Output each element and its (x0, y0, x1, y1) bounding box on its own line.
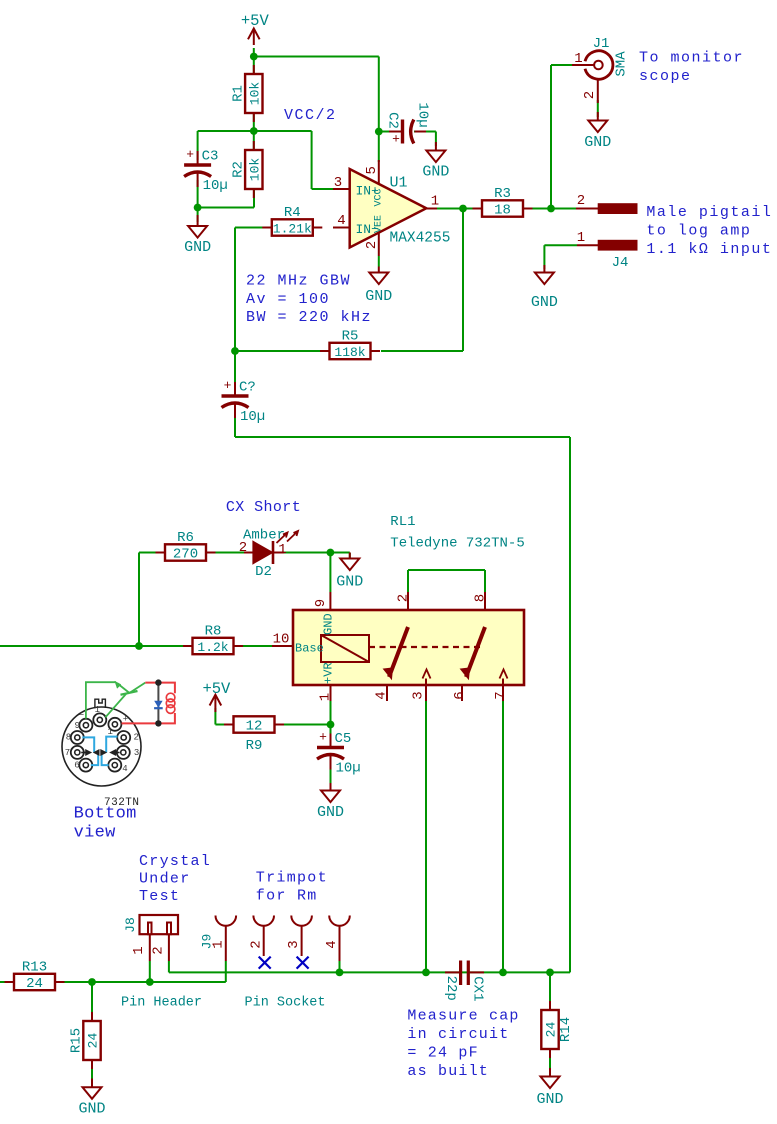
svg-text:3: 3 (411, 691, 427, 699)
svg-text:Amber: Amber (243, 528, 285, 544)
resistor R8 1.2k (183, 624, 243, 656)
svg-text:2: 2 (364, 241, 380, 249)
wire relay pin1 to C5 node (330, 701, 332, 740)
op-amp pin 2 VEE (364, 215, 385, 267)
relay pin 7 (493, 685, 509, 701)
svg-text:+: + (186, 147, 194, 162)
svg-text:J1: J1 (593, 36, 610, 52)
junction J9 pin4 (336, 969, 344, 977)
svg-text:+: + (319, 730, 327, 745)
connector J1 value SMA (614, 51, 630, 77)
svg-text:+5V: +5V (241, 12, 270, 30)
note Trimpot for Rm (256, 870, 328, 905)
svg-text:GND: GND (365, 288, 392, 305)
svg-text:R8: R8 (205, 624, 222, 640)
svg-text:Crystal: Crystal (139, 853, 211, 870)
wire op-amp output to R3 (426, 208, 482, 210)
wire relay pin7 down to bottom net (502, 701, 504, 972)
connector J1 SMA body (585, 51, 613, 79)
svg-text:R15: R15 (69, 1028, 85, 1053)
resistor R4 1.21k (262, 205, 322, 237)
wire bottom net B (169, 961, 570, 972)
op-amp pin 5 VCC (364, 160, 385, 207)
svg-text:GND: GND (531, 294, 558, 311)
svg-text:GND: GND (184, 239, 211, 256)
male pigtail bar J4 pin 1 (577, 230, 638, 251)
label VCC/2 (284, 107, 337, 124)
wire R8 right to relay pin 10 (233, 645, 272, 647)
connector J8 reference (123, 917, 138, 933)
svg-text:4: 4 (374, 691, 390, 699)
svg-text:J8: J8 (123, 917, 138, 933)
svg-text:Trimpot: Trimpot (256, 870, 328, 887)
svg-text:10: 10 (273, 632, 290, 648)
svg-text:Av = 100: Av = 100 (246, 291, 330, 308)
svg-text:as built: as built (407, 1063, 489, 1080)
svg-text:Male pigtail: Male pigtail (646, 204, 772, 221)
note Male pigtail to log amp (646, 204, 772, 258)
relay mechanical link dashed (369, 646, 481, 648)
relay contact pin 7 (500, 670, 508, 686)
wire +5V to R9 (215, 708, 236, 725)
svg-text:10µ: 10µ (336, 761, 361, 777)
svg-text:Bottom: Bottom (74, 805, 137, 824)
note Crystal Under Test (139, 853, 211, 905)
svg-text:22p: 22p (443, 976, 459, 1001)
wire C3 bottom node (198, 180, 254, 222)
svg-text:4: 4 (337, 213, 345, 229)
resistor R2 10k (230, 141, 262, 198)
732TN pin circle plus (108, 718, 121, 731)
wire J8 pin1 to net A (149, 961, 151, 982)
732TN diode arrows black (81, 750, 119, 755)
wire CX short node to R6 (139, 553, 164, 647)
ground under C3 (184, 215, 211, 256)
732TN pin circle 4 (108, 759, 121, 772)
svg-text:22 MHz GBW: 22 MHz GBW (246, 273, 351, 290)
svg-text:GND: GND (322, 613, 336, 635)
wire bottom net A (0, 981, 226, 983)
svg-text:1: 1 (431, 194, 439, 210)
relay pin 9 GND (313, 592, 336, 635)
connector J9 socket pin 2 (248, 916, 274, 957)
junction R14 tap (546, 969, 554, 977)
svg-text:2: 2 (577, 193, 585, 209)
wire pin9 node down to relay pin 9 (329, 553, 331, 593)
wire R1 bottom to R2 top through VCC/2 node (253, 113, 255, 150)
svg-text:CX1: CX1 (470, 976, 486, 1001)
LED D2 Amber (239, 528, 298, 581)
svg-text:C3: C3 (202, 149, 219, 165)
svg-text:for Rm: for Rm (256, 888, 318, 905)
svg-text:9: 9 (313, 599, 329, 607)
note Measure cap in circuit (407, 1008, 519, 1081)
op-amp reference U1 (390, 175, 408, 192)
svg-text:1: 1 (574, 51, 582, 67)
svg-text:R5: R5 (342, 329, 359, 345)
capacitor C3 10u (184, 147, 228, 194)
junction +5V/R1 (250, 53, 258, 61)
732TN transistor sketch green (86, 681, 145, 718)
svg-text:R3: R3 (494, 186, 511, 202)
ground under op-amp pin 2 (365, 267, 392, 306)
svg-text:2: 2 (396, 594, 412, 602)
svg-text:3: 3 (286, 940, 302, 948)
svg-text:to log amp: to log amp (646, 223, 751, 240)
note To monitor scope (639, 50, 744, 86)
wire C? bottom to long vertical net (235, 416, 570, 972)
732TN pin circle 1 top (93, 713, 106, 726)
wire +5V rail to R1 and pin5 column (254, 48, 379, 162)
732TN diode sketch (154, 679, 163, 726)
wire R9 right to C5 node (273, 724, 331, 726)
svg-text:Measure cap: Measure cap (407, 1008, 519, 1025)
junction relay pin1/R9/C5 (327, 721, 335, 729)
svg-text:R14: R14 (558, 1017, 574, 1042)
svg-text:J4: J4 (612, 255, 629, 271)
svg-text:1: 1 (95, 705, 100, 715)
svg-text:10µ: 10µ (415, 102, 431, 127)
junction C2/pin5 (375, 128, 383, 136)
svg-text:24: 24 (26, 976, 43, 992)
relay pin 6 (452, 685, 468, 701)
svg-text:J9: J9 (200, 934, 215, 950)
relay pin 2 (396, 592, 412, 610)
svg-text:GND: GND (422, 164, 449, 181)
wire D2 cathode to relay pin 9 node (274, 553, 350, 560)
ground at D2 node (336, 553, 363, 591)
732TN socket outline (62, 699, 141, 786)
resistor R5 118k (320, 329, 380, 361)
wire output node up to J1 pin 1 (551, 65, 572, 209)
capacitor C5 10u (317, 730, 361, 777)
junction VCC/2 node (250, 127, 258, 135)
resistor R13 24 (5, 960, 65, 993)
resistor R9 12 (224, 716, 284, 754)
wire J9 pin1 to net B (225, 961, 227, 972)
svg-text:2: 2 (133, 733, 138, 743)
svg-text:GND: GND (317, 804, 344, 821)
connector J4 reference (612, 255, 629, 271)
svg-text:24: 24 (86, 1033, 101, 1049)
svg-text:GND: GND (336, 574, 363, 591)
connector J9 socket pin 4 (324, 916, 350, 962)
op-amp pin 3 IN+ (333, 175, 379, 199)
note Bottom view (74, 805, 137, 843)
wire C5 bottom to GND (330, 760, 332, 791)
relay reference RL1 (390, 514, 415, 530)
wire J1 pin 2 to GND (597, 100, 599, 117)
wire feedback node to R5 left (235, 350, 320, 352)
svg-text:C2: C2 (385, 112, 401, 129)
capacitor C2 10u (385, 102, 431, 146)
svg-text:Under: Under (139, 871, 191, 888)
svg-text:10µ: 10µ (203, 178, 228, 194)
732TN pin circle 3 (117, 746, 130, 759)
relay coil (321, 635, 369, 662)
svg-text:Base: Base (295, 642, 324, 656)
capacitor CX1 22p (443, 961, 486, 1002)
svg-text:+: + (392, 132, 400, 147)
wire VCC/2 node to IN+ pin 3 (254, 131, 333, 189)
power +5V top (241, 12, 270, 45)
note CX Short (226, 499, 301, 516)
wire J9 pin4 to net B (339, 961, 341, 972)
732TN label (104, 797, 140, 809)
connector J1 pin 2 (582, 80, 598, 104)
resistor R14 24 (541, 1001, 574, 1058)
svg-text:6: 6 (74, 761, 79, 771)
svg-text:6: 6 (452, 691, 468, 699)
ground under R15 (78, 1079, 105, 1118)
junction relay pin7 net (499, 969, 507, 977)
svg-text:2: 2 (248, 940, 264, 948)
732TN pin labels (65, 705, 140, 774)
relay value Teledyne 732TN-5 (390, 536, 524, 552)
wire J4 pin 1 to GND (544, 245, 577, 269)
svg-text:GND: GND (584, 134, 611, 151)
svg-text:CX Short: CX Short (226, 499, 301, 516)
junction R8/CX (135, 642, 143, 650)
op-amp pin 4 IN- (333, 213, 379, 237)
relay pin 3 (411, 685, 427, 701)
svg-text:12: 12 (246, 719, 263, 735)
connector J8 pin 1 (131, 934, 150, 961)
svg-text:1.2k: 1.2k (197, 640, 228, 655)
connector J9 socket pin 3 (286, 916, 312, 957)
ground under R14 (536, 1068, 563, 1108)
732TN coil sketch red (122, 683, 175, 724)
svg-text:270: 270 (173, 547, 198, 563)
svg-text:R4: R4 (284, 205, 301, 221)
relay pin 4 (374, 685, 390, 701)
no-connect X on J9 pin 2 (259, 957, 271, 969)
label Pin Header (121, 996, 202, 1011)
svg-text:D2: D2 (255, 564, 272, 580)
op-amp pin 1 output (426, 194, 439, 210)
wire net A to R15 (91, 982, 93, 1021)
no-connect X on J9 pin 3 (297, 957, 309, 969)
label Pin Socket (245, 996, 326, 1011)
wire link between nets (225, 972, 227, 982)
svg-text:7: 7 (493, 691, 509, 699)
svg-text:−: − (79, 710, 84, 720)
svg-text:GND: GND (536, 1091, 563, 1108)
svg-text:BW = 220 kHz: BW = 220 kHz (246, 309, 372, 326)
junction R3/J1 (547, 205, 555, 213)
732TN blue wiring (82, 737, 117, 766)
svg-text:= 24 pF: = 24 pF (407, 1045, 478, 1062)
junction D2/relay pin9 (327, 549, 335, 557)
svg-text:3: 3 (334, 175, 342, 191)
ground under J1 pin 2 (584, 112, 611, 151)
resistor R3 18 (473, 186, 533, 219)
svg-text:To monitor: To monitor (639, 50, 744, 67)
male pigtail bar to J4 pin 2 (576, 193, 638, 214)
svg-text:R6: R6 (177, 530, 194, 546)
svg-text:+: + (224, 378, 232, 393)
relay RL1 body (293, 610, 524, 685)
svg-text:C5: C5 (335, 731, 352, 747)
svg-text:scope: scope (639, 68, 692, 85)
svg-text:R2: R2 (230, 161, 246, 178)
resistor R6 270 (156, 530, 216, 563)
junction R13/R15 (88, 978, 96, 986)
svg-text:VCC: VCC (373, 188, 384, 206)
wire R6 right to LED D2 (208, 552, 253, 554)
svg-text:+VR: +VR (322, 662, 336, 684)
relay switch blade 2 (461, 627, 486, 679)
svg-text:2: 2 (582, 91, 598, 99)
svg-text:+5V: +5V (202, 680, 231, 698)
svg-text:5: 5 (364, 166, 380, 174)
svg-text:R1: R1 (230, 85, 246, 102)
wire VCC/2 node to C3 top (198, 131, 254, 160)
connector J1 reference (593, 36, 610, 52)
wire left input to R8 (0, 645, 194, 647)
svg-text:1: 1 (278, 542, 286, 558)
svg-text:1: 1 (107, 727, 112, 737)
wire R3 right to pigtail node (523, 208, 576, 210)
wire net B to R14 (549, 972, 551, 1010)
svg-text:9: 9 (74, 721, 79, 731)
connector J8 pin header body (140, 915, 179, 934)
svg-text:118k: 118k (334, 345, 365, 360)
wire R15 to GND (91, 1061, 93, 1079)
svg-text:R13: R13 (22, 960, 47, 976)
svg-text:Test: Test (139, 888, 180, 905)
svg-text:18: 18 (494, 203, 511, 219)
732TN pin circle 8 (71, 731, 84, 744)
connector J1 pin 1 (572, 51, 594, 67)
svg-text:4: 4 (324, 940, 340, 948)
svg-text:Pin Socket: Pin Socket (245, 996, 326, 1011)
wire output node down to R5 right (381, 209, 463, 352)
svg-text:10k: 10k (247, 158, 262, 182)
svg-text:3: 3 (134, 748, 139, 758)
wire R14 to GND (549, 1051, 551, 1077)
svg-text:VEE: VEE (373, 215, 384, 233)
732TN pin circle 2 (117, 731, 130, 744)
svg-text:1.21k: 1.21k (273, 222, 312, 237)
svg-text:7: 7 (65, 748, 70, 758)
capacitor C? 10u (222, 378, 266, 425)
svg-text:1: 1 (577, 230, 585, 246)
svg-text:2: 2 (150, 946, 166, 954)
relay pin 10 Base (272, 632, 324, 656)
svg-text:GND: GND (78, 1101, 105, 1118)
732TN pin circle 9 (79, 719, 92, 732)
svg-text:4: 4 (122, 764, 127, 774)
ground under C2 (422, 142, 449, 181)
svg-text:1: 1 (318, 693, 334, 701)
svg-text:8: 8 (66, 733, 71, 743)
relay contact pin 3 (423, 670, 431, 686)
wire R4 left to feedback node (235, 228, 273, 352)
svg-text:Teledyne 732TN-5: Teledyne 732TN-5 (390, 536, 524, 552)
junction J8 pin1 (146, 978, 154, 986)
relay pin 1 +VR (318, 662, 336, 701)
power +5V at R9 (202, 680, 231, 712)
svg-text:24: 24 (544, 1022, 559, 1038)
732TN pin circle 6 (79, 759, 92, 772)
resistor R15 24 (69, 1012, 101, 1069)
svg-text:1.1 kΩ input: 1.1 kΩ input (646, 241, 772, 258)
svg-text:10µ: 10µ (240, 409, 265, 425)
note 22 MHz GBW block (246, 273, 372, 327)
junction R5/R4/C? (231, 347, 239, 355)
ground under J4 pin 1 (531, 265, 558, 311)
op-amp U1 MAX4255 body (350, 169, 427, 248)
svg-text:Pin Header: Pin Header (121, 996, 202, 1011)
svg-text:in circuit: in circuit (407, 1026, 509, 1043)
wire feedback node down to C? (234, 351, 236, 396)
connector J8 pin 2 (150, 934, 169, 961)
svg-text:8: 8 (473, 594, 489, 602)
svg-text:MAX4255: MAX4255 (390, 231, 451, 247)
connector J9 socket pin 1 (210, 916, 236, 962)
svg-text:VCC/2: VCC/2 (284, 107, 337, 124)
relay pin 8 (473, 592, 489, 610)
connector J9 reference (200, 934, 215, 950)
732TN pin circle 7 (71, 746, 84, 759)
op-amp value MAX4255 (390, 231, 451, 247)
wire C2 connections (379, 132, 436, 147)
resistor R1 10k (230, 65, 262, 122)
svg-text:RL1: RL1 (390, 514, 415, 530)
svg-text:C?: C? (239, 380, 256, 396)
svg-text:1: 1 (131, 946, 147, 954)
junction C3/R2/GND (194, 204, 202, 212)
svg-text:R9: R9 (246, 738, 263, 754)
junction relay pin3 net (422, 969, 430, 977)
ground under C5 (317, 783, 344, 821)
svg-text:10k: 10k (247, 82, 262, 106)
svg-text:view: view (74, 824, 117, 843)
svg-text:SMA: SMA (614, 51, 630, 77)
wire relay pin2 to pin8 bridge (408, 570, 485, 592)
relay switch blade 1 (384, 627, 409, 679)
svg-text:U1: U1 (390, 175, 408, 192)
wire relay pin3 down to bottom net (425, 701, 427, 972)
junction op-amp output (459, 205, 467, 213)
